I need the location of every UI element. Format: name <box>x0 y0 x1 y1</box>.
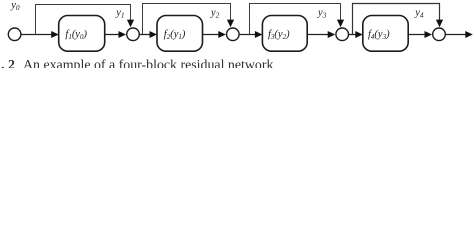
svg-text:y2: y2 <box>210 7 220 19</box>
wire block f1 to node y1 <box>105 34 120 36</box>
output wire from node y4 <box>446 34 467 36</box>
arrow into node y4 <box>425 31 433 38</box>
arrow down into node y1 <box>127 20 134 28</box>
skip wire 1 (over block f1) <box>36 5 131 35</box>
arrow down into node y2 <box>227 20 234 28</box>
block f2 <box>157 16 203 52</box>
output arrow <box>465 31 473 38</box>
wire block f3 to node y3 <box>307 34 329 36</box>
svg-text:f2(y1): f2(y1) <box>164 29 186 41</box>
svg-text:f1(y0): f1(y0) <box>65 29 87 41</box>
block f3 <box>262 16 307 52</box>
svg-text:y4: y4 <box>414 7 424 19</box>
wire node-y0 to block f1 <box>21 34 53 36</box>
arrow down into node y4 <box>436 20 443 28</box>
arrow down into node y3 <box>337 20 344 28</box>
svg-text:y0: y0 <box>10 0 20 12</box>
wire block f2 to node y2 <box>203 34 220 36</box>
block f4 <box>363 16 408 52</box>
svg-text:f3(y2): f3(y2) <box>268 29 290 41</box>
node y3 addition circle <box>336 28 349 41</box>
svg-text:y3: y3 <box>317 7 327 19</box>
wire node y2 to block f3 <box>240 34 257 36</box>
node y1 addition circle <box>127 28 140 41</box>
arrow into block f1 <box>51 31 59 38</box>
wire block f4 to node y4 <box>408 34 426 36</box>
node y4 addition circle <box>433 28 446 41</box>
arrow into block f3 <box>255 31 263 38</box>
skip wire 4 (over block f4) <box>353 4 440 35</box>
wire node y3 to block f4 <box>349 34 357 36</box>
arrow into node y2 <box>218 31 226 38</box>
skip wire 3 (over block f3) <box>250 4 341 35</box>
skip wire 2 (over block f2) <box>143 4 231 35</box>
svg-text:. 2An example of a four-block: . 2An example of a four-block residual n… <box>1 58 273 68</box>
svg-text:f4(y3): f4(y3) <box>368 29 390 41</box>
node y0 input circle <box>8 28 21 41</box>
node y2 addition circle <box>227 28 240 41</box>
arrow into node y1 <box>119 31 127 38</box>
svg-text:y1: y1 <box>115 7 124 19</box>
arrow into block f2 <box>150 31 158 38</box>
wire node y1 to block f2 <box>140 34 152 36</box>
arrow into block f4 <box>355 31 363 38</box>
block f1 <box>59 16 105 52</box>
arrow into node y3 <box>328 31 336 38</box>
